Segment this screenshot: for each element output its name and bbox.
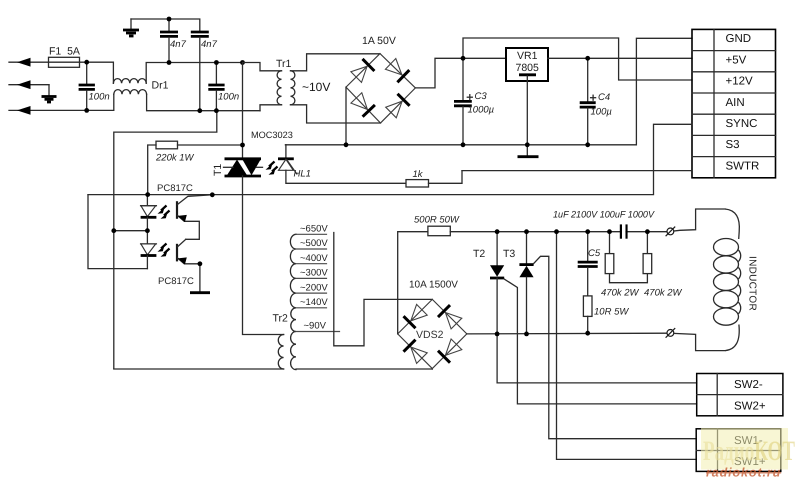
svg-text:470k 2W: 470k 2W xyxy=(644,288,683,299)
wire T2 cathode to SW2- xyxy=(497,334,697,383)
AC input arrow L (phase) xyxy=(9,58,49,67)
tap wire ~90V xyxy=(296,331,340,333)
svg-text:radiokot.ru: radiokot.ru xyxy=(706,466,781,480)
connector SW2 box xyxy=(697,374,783,416)
diode VDS2 top-right xyxy=(438,305,462,329)
wire T2 gate to SW2+ xyxy=(504,279,697,404)
svg-text:1k: 1k xyxy=(413,169,424,180)
diode D3 bridge 1A bottom-left xyxy=(351,93,375,117)
junction dots output section xyxy=(495,229,650,336)
svg-text:~200V: ~200V xyxy=(300,282,328,293)
LED HL1 xyxy=(278,145,406,184)
transistor Q1 PC817 upper xyxy=(177,195,212,240)
junction dots opto section xyxy=(111,143,245,267)
wire VDS2 minus rail xyxy=(467,332,667,335)
wire mains L down to triac T1 xyxy=(242,63,244,159)
fuse F1 xyxy=(49,57,87,67)
wire VR1 output rail to +5V xyxy=(548,57,692,59)
svg-text:T2: T2 xyxy=(473,248,485,260)
svg-text:РадиоКОТ: РадиоКОТ xyxy=(703,436,795,467)
svg-text:T1: T1 xyxy=(212,164,224,176)
junction dots input section xyxy=(84,17,245,114)
svg-text:~400V: ~400V xyxy=(300,253,328,264)
wire bridge plus to DC rail xyxy=(415,58,463,88)
svg-text:1000µ: 1000µ xyxy=(468,105,495,116)
wire Dr1 top to L rail xyxy=(146,63,242,84)
bridge VDS2 outline xyxy=(398,299,467,368)
choke Dr1 winding top xyxy=(113,79,146,84)
svg-text:Tr2: Tr2 xyxy=(273,313,289,325)
photo arrows PC817 lower xyxy=(158,244,170,257)
svg-text:100n: 100n xyxy=(218,92,239,103)
connector SW1 box xyxy=(696,429,781,472)
wire T3 gate to SW1- xyxy=(534,256,697,438)
wire N rail to Dr1 xyxy=(87,94,114,110)
svg-text:7805: 7805 xyxy=(516,62,540,74)
ground symbol top xyxy=(123,19,139,36)
svg-text:SW2-: SW2- xyxy=(734,379,763,391)
svg-text:INDUCTOR: INDUCTOR xyxy=(747,256,758,311)
wire rail to SW1+ xyxy=(557,232,697,460)
wire Dr1 bottom to N rail xyxy=(147,94,260,111)
terminal output top xyxy=(666,227,676,237)
label C4 plus xyxy=(591,95,596,100)
wire Tr1 primary top lead xyxy=(243,63,282,71)
svg-text:~10V: ~10V xyxy=(302,80,330,94)
svg-text:+12V: +12V xyxy=(726,76,754,88)
label C3 plus xyxy=(467,95,472,100)
svg-text:C4: C4 xyxy=(598,92,610,103)
transformer Tr2 secondary winding xyxy=(290,234,296,369)
svg-text:~300V: ~300V xyxy=(300,268,328,279)
LED PC817 upper xyxy=(141,195,157,231)
LED PC817 lower xyxy=(141,231,157,269)
tap wire ~200V xyxy=(296,292,327,294)
svg-text:470k 2W: 470k 2W xyxy=(601,288,640,299)
capacitor 100uF series xyxy=(621,224,627,239)
wire Tr2 secondary bottom to bridge VDS2 xyxy=(296,368,432,371)
capacitor C4 xyxy=(580,58,596,145)
svg-text:4n7: 4n7 xyxy=(170,39,187,50)
svg-text:500R 50W: 500R 50W xyxy=(414,215,460,226)
svg-text:S3: S3 xyxy=(726,139,740,151)
wire Tr2 primary bottom lead xyxy=(114,368,284,370)
svg-text:HL1: HL1 xyxy=(294,169,311,180)
transformer Tr1 primary winding xyxy=(277,71,281,105)
svg-text:~90V: ~90V xyxy=(304,321,327,332)
transformer Tr2 primary winding xyxy=(278,335,283,370)
diode VDS2 top-left xyxy=(404,304,428,328)
wire terminal bottom to inductor xyxy=(674,333,725,350)
svg-text:4n7: 4n7 xyxy=(201,39,218,50)
transistor Q2 PC817 lower xyxy=(177,239,200,264)
svg-text:1uF 2100V 100uF 1000V: 1uF 2100V 100uF 1000V xyxy=(553,210,656,221)
transformer Tr1 secondary winding xyxy=(291,71,295,105)
tap wire ~650V xyxy=(296,233,327,235)
resistor 1k xyxy=(406,171,462,187)
capacitor C 100n input xyxy=(79,62,95,110)
svg-text:10A 1500V: 10A 1500V xyxy=(409,280,458,291)
diode D4 bridge 1A bottom-right xyxy=(386,94,410,118)
ground symbol under Q2 xyxy=(190,264,210,293)
wire Tr1 secondary bottom to bridge xyxy=(291,105,381,123)
terminal output bottom xyxy=(666,328,676,338)
inductor coil xyxy=(714,209,741,351)
diode D1 bridge 1A top-left xyxy=(351,59,375,83)
connector J1 box xyxy=(692,29,776,177)
wire VR1 ground pin xyxy=(526,81,528,145)
wire ground top rail xyxy=(131,19,200,31)
svg-text:PC817C: PC817C xyxy=(157,183,193,194)
diode VDS2 bottom-left xyxy=(404,340,428,364)
watermark wash xyxy=(701,428,795,470)
resistor 220k xyxy=(148,141,243,194)
svg-text:SYNC: SYNC xyxy=(726,118,758,130)
svg-text:SW2+: SW2+ xyxy=(734,400,766,412)
wire tap selector bus to bridge VDS2 xyxy=(334,233,433,346)
photo arrows MOC xyxy=(266,162,278,175)
svg-text:1A 50V: 1A 50V xyxy=(362,35,396,47)
ground symbol under VR1 xyxy=(518,145,539,157)
AC input arrow PE (middle) xyxy=(9,80,49,89)
wire Tr1 primary bottom lead xyxy=(260,105,282,111)
diode D2 bridge 1A top-right xyxy=(385,59,409,83)
capacitor C3 xyxy=(454,58,472,145)
svg-text:C5: C5 xyxy=(588,248,601,259)
svg-text:MOC3023: MOC3023 xyxy=(251,130,293,140)
capacitor C5 xyxy=(578,232,598,296)
capacitor 4n7 second xyxy=(191,32,209,111)
svg-text:AIN: AIN xyxy=(726,97,745,109)
svg-text:PC817C: PC817C xyxy=(158,276,194,287)
tap wire ~400V xyxy=(296,263,327,265)
svg-text:~650V: ~650V xyxy=(300,224,328,235)
wire L rail to Dr1 xyxy=(87,62,114,83)
wire VR1 input rail xyxy=(463,57,506,59)
svg-text:+5V: +5V xyxy=(726,54,747,66)
wire ground rail DC xyxy=(285,38,692,145)
resistor 470k right xyxy=(643,232,652,274)
svg-text:C3: C3 xyxy=(475,91,488,102)
wire Tr1 secondary top to bridge xyxy=(291,54,381,71)
choke Dr1 winding bottom xyxy=(114,90,147,95)
svg-text:~140V: ~140V xyxy=(300,297,328,308)
svg-text:100n: 100n xyxy=(89,92,110,103)
diode VDS2 bottom-right xyxy=(438,339,462,363)
wire VDS2 plus up to 500R rail xyxy=(398,232,428,334)
svg-text:GND: GND xyxy=(726,33,752,45)
ground PE symbol xyxy=(42,85,57,102)
svg-text:SWTR: SWTR xyxy=(726,160,760,172)
resistor 10R 5W xyxy=(583,296,592,333)
wire SYNC net xyxy=(88,124,692,194)
wire +12V unregulated rail xyxy=(463,38,692,80)
svg-text:10R 5W: 10R 5W xyxy=(594,307,629,318)
wire T1 down to Tr2 primary xyxy=(243,176,284,335)
tap wire ~140V xyxy=(296,307,327,309)
optocoupler ring left side xyxy=(88,195,147,269)
svg-text:220k 1W: 220k 1W xyxy=(155,153,195,164)
capacitor 100n second xyxy=(208,63,224,111)
wire terminal top to inductor xyxy=(674,209,725,231)
wire bridge minus to ground rail xyxy=(345,87,347,145)
svg-text:~500V: ~500V xyxy=(300,238,328,249)
svg-text:VDS2: VDS2 xyxy=(416,329,444,341)
photo arrows PC817 upper xyxy=(158,206,170,219)
svg-text:F1 5A: F1 5A xyxy=(49,46,80,58)
bridge VDS1 outline xyxy=(346,54,415,123)
wire LED midpoint xyxy=(114,230,148,232)
svg-text:T3: T3 xyxy=(503,248,515,260)
capacitor 4n7 first xyxy=(160,19,178,63)
resistor 500R 50W xyxy=(428,226,671,236)
svg-text:VR1: VR1 xyxy=(517,50,538,62)
junction dots DC section xyxy=(344,56,590,147)
thyristor T2 xyxy=(490,232,504,334)
wire neutral feed to Tr2 primary xyxy=(114,111,217,369)
tap wire ~500V xyxy=(296,248,327,250)
svg-text:100µ: 100µ xyxy=(591,107,613,118)
wire SWTR net xyxy=(462,170,692,172)
triac T1 (MOC3023 output) xyxy=(224,159,263,176)
resistor 470k left xyxy=(605,232,647,283)
svg-text:Tr1: Tr1 xyxy=(276,58,292,70)
regulator VR1 7805 box xyxy=(506,48,548,81)
thyristor T3 xyxy=(519,232,533,334)
tap wire ~300V xyxy=(296,277,327,279)
AC input arrow N (bottom) xyxy=(9,106,87,115)
svg-text:Dr1: Dr1 xyxy=(152,80,169,92)
